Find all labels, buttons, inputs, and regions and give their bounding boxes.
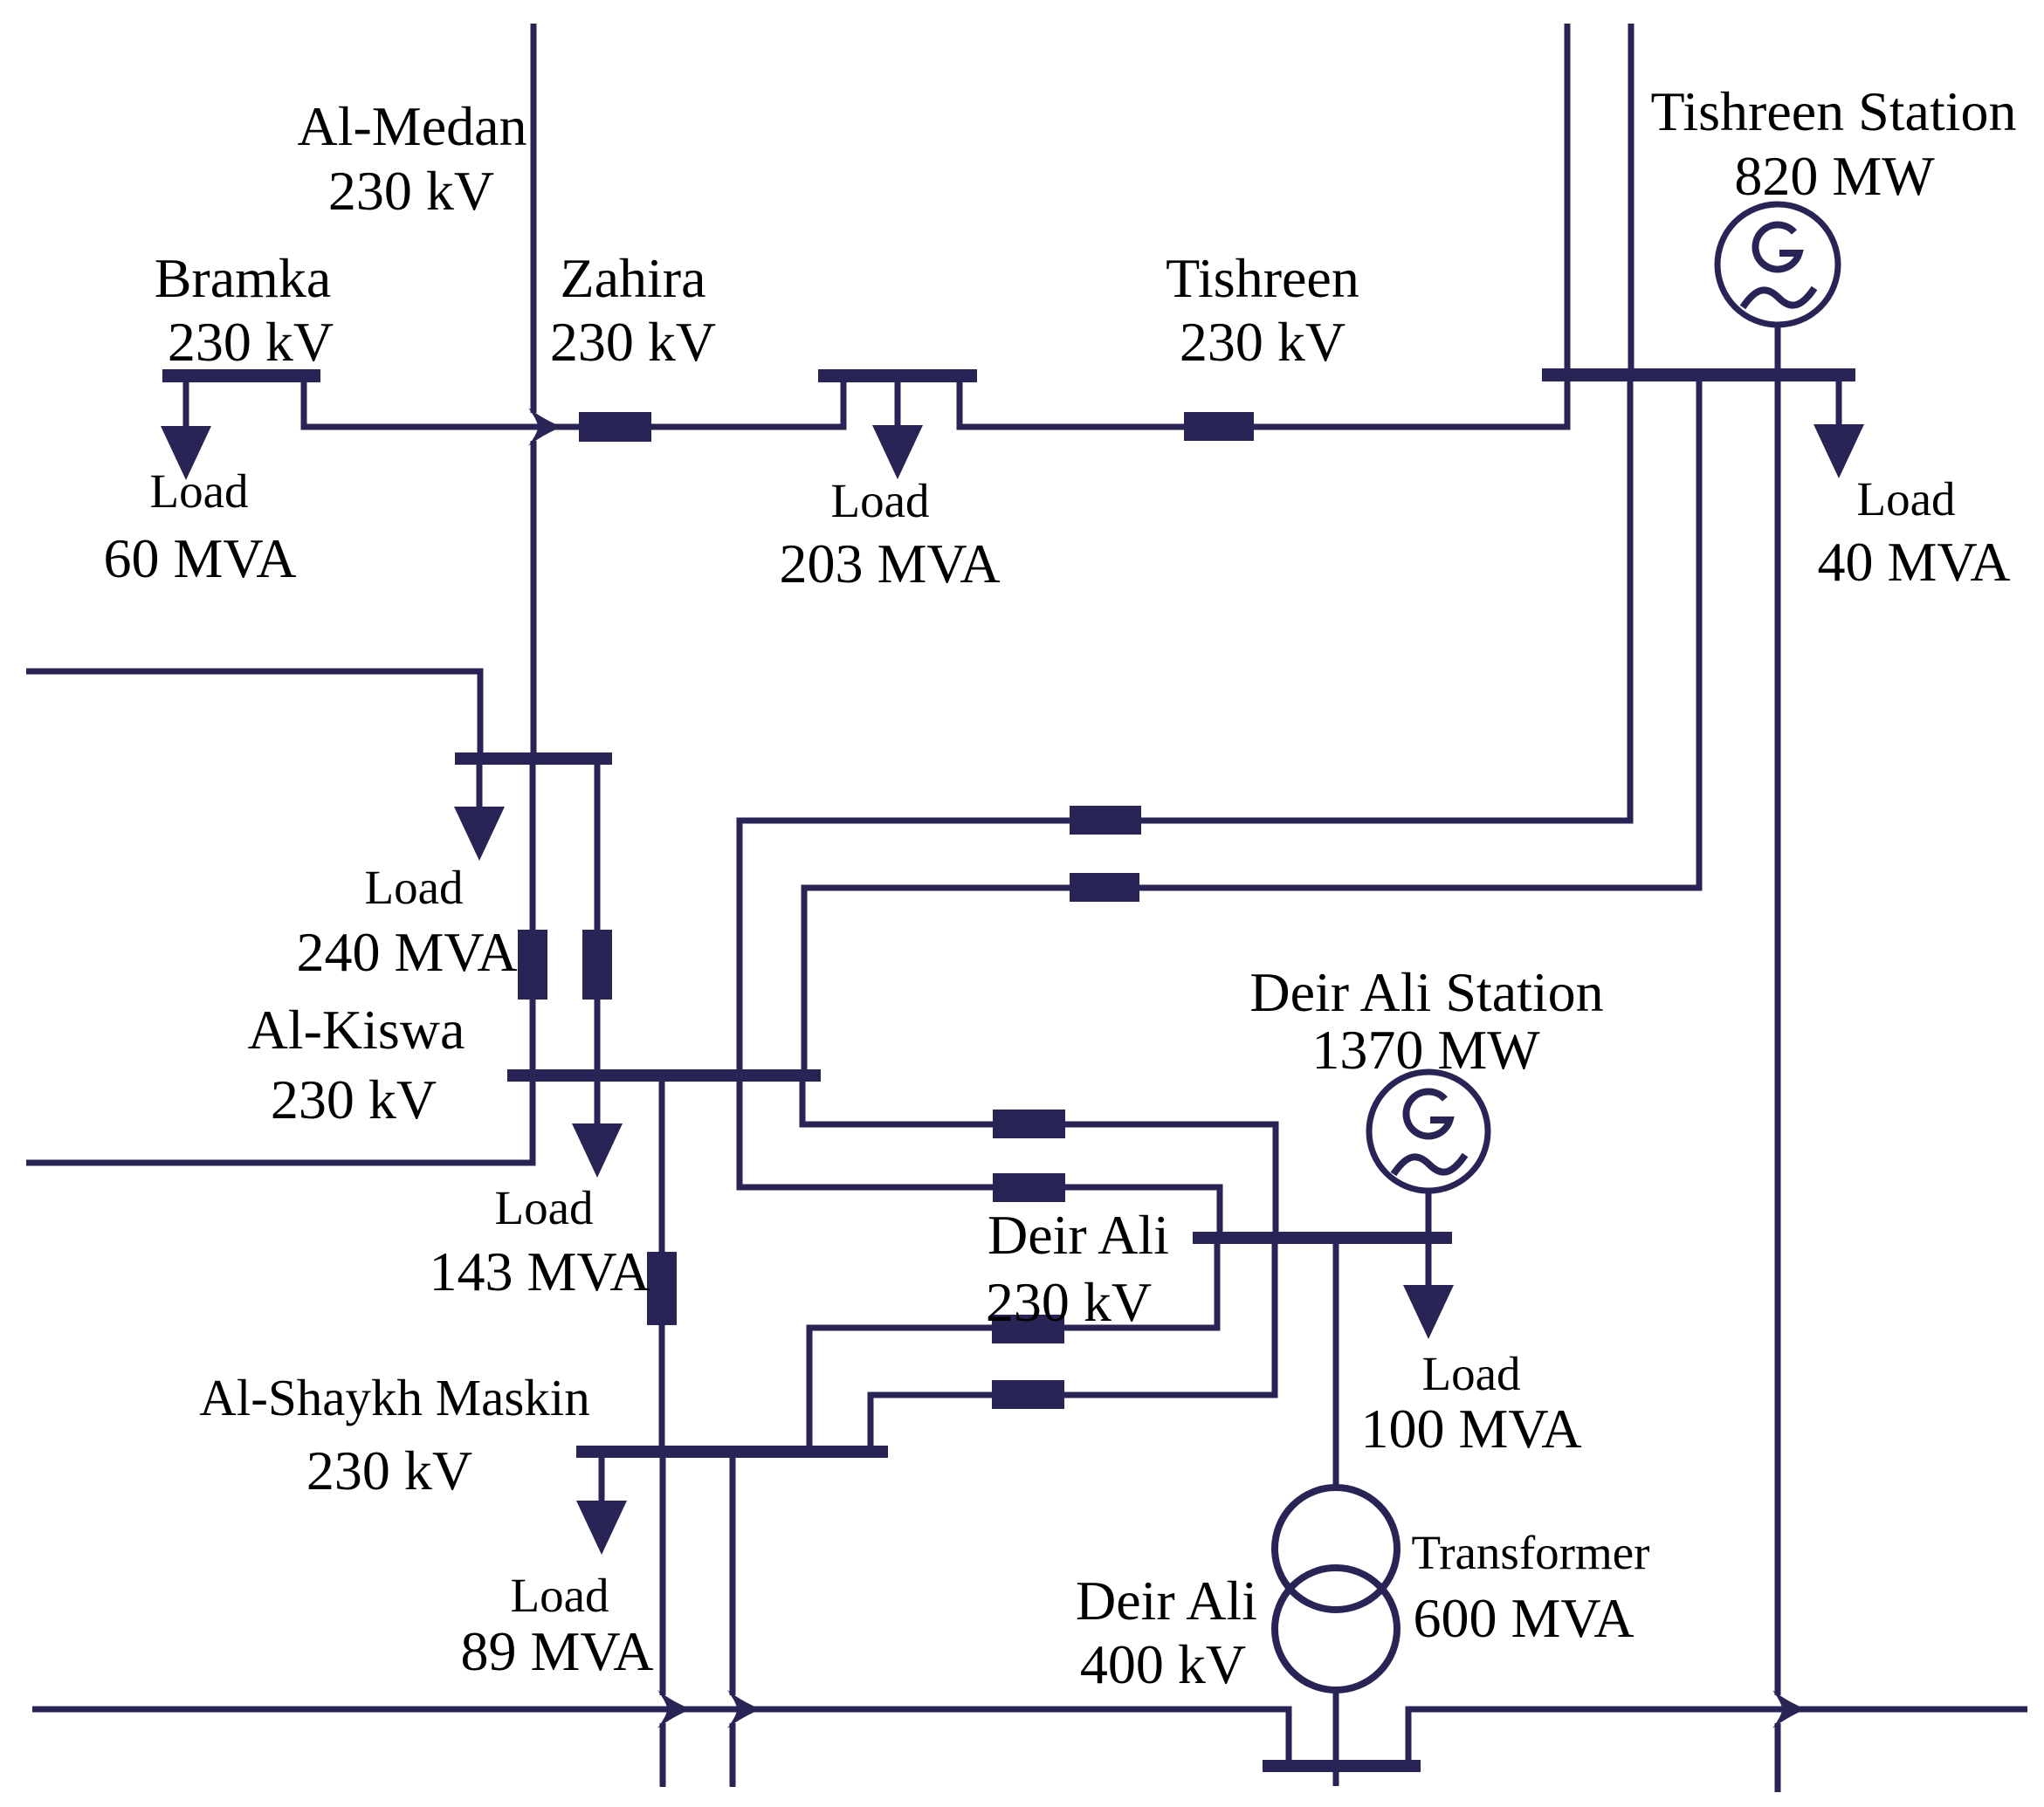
wire impedance branch 1: [530, 765, 536, 1069]
load arrow 60 MVA: [161, 426, 211, 480]
svg-text:820 MW: 820 MW: [1734, 145, 1935, 207]
node hop arrow at Zahira junction: [528, 408, 561, 446]
svg-text:Al-Medan: Al-Medan: [297, 95, 526, 157]
node hop arrow vertical a at 400kV line: [657, 1690, 691, 1728]
wire Tishreen top feeder 2: [1628, 24, 1635, 369]
wire line Tishreen to Al-Kiswa 2: [804, 381, 1699, 1069]
svg-text:Load: Load: [494, 1181, 593, 1234]
wire transformer upper connection: [1333, 1244, 1339, 1488]
bus Tishreen 230 kV: [1542, 368, 1855, 381]
svg-text:230 kV: 230 kV: [328, 160, 494, 222]
svg-text:Bramka: Bramka: [155, 247, 332, 309]
wire Zahira to Tishreen segment: [960, 381, 1567, 427]
generator G1 sine mark: [1743, 288, 1814, 307]
bus Bramka 230 kV: [162, 369, 320, 382]
breaker Tishreen-AlKiswa line 1: [1070, 806, 1141, 835]
wire impedance branch 2: [595, 765, 601, 1069]
wire Al-Shaykh load stub: [599, 1458, 605, 1501]
wire Tishreen load stub: [1836, 381, 1842, 425]
bus Al-Kiswa 230 kV: [507, 1069, 821, 1082]
wire Deir Ali load stub: [1426, 1244, 1432, 1286]
breaker Tishreen-AlKiswa line 2: [1070, 873, 1139, 902]
svg-text:60 MVA: 60 MVA: [103, 527, 296, 589]
wire left incomer 2: [26, 1082, 533, 1163]
breaker DeirAli-AlShaykh line 2: [992, 1380, 1064, 1409]
generator G2 letter G: [1406, 1091, 1449, 1136]
load arrow 203 MVA: [872, 425, 923, 479]
svg-text:Zahira: Zahira: [561, 247, 706, 309]
svg-text:203 MVA: 203 MVA: [779, 532, 1000, 594]
svg-text:Transformer: Transformer: [1412, 1526, 1650, 1579]
wire Al-Shaykh outgoing vertical a lower: [660, 1723, 666, 1787]
bus Al-Shaykh Maskin 230 kV: [576, 1446, 888, 1458]
wire transformer lower connection: [1333, 1690, 1339, 1786]
svg-text:Deir Ali: Deir Ali: [1076, 1570, 1257, 1632]
wire Al-Kiswa load stub: [595, 1082, 601, 1124]
breaker Bramka-Zahira line: [579, 412, 651, 442]
wire line Al-Kiswa to Deir Ali 4: [740, 1082, 1220, 1232]
breaker DeirAli-AlShaykh line 1: [992, 1315, 1064, 1343]
bus Deir Ali 400 kV: [1263, 1760, 1421, 1772]
load arrow 143 MVA: [572, 1123, 623, 1178]
wire generator G1 stub: [1775, 325, 1781, 369]
transformer 600 MVA circle upper: [1275, 1488, 1397, 1610]
wire line Deir Ali to Al-Shaykh 1: [809, 1244, 1217, 1446]
svg-text:600 MVA: 600 MVA: [1413, 1587, 1634, 1649]
generator G1 letter G: [1755, 224, 1799, 269]
wire Al-Medan feeder vertical upper: [531, 24, 537, 413]
svg-text:400 kV: 400 kV: [1080, 1633, 1246, 1695]
wire Zahira load stub: [895, 382, 901, 426]
bus Zahira 230 kV: [818, 369, 977, 382]
svg-text:230 kV: 230 kV: [986, 1271, 1152, 1333]
load arrow 89 MVA: [576, 1501, 627, 1555]
svg-text:100 MVA: 100 MVA: [1360, 1398, 1581, 1460]
wire Al-Shaykh outgoing vertical b upper: [730, 1458, 736, 1695]
wire Al-Shaykh outgoing vertical a upper: [660, 1458, 666, 1695]
generator G2 Deir Ali Station circle: [1369, 1072, 1488, 1191]
breaker AlKiswa-DeirAli line 3: [993, 1110, 1065, 1138]
node hop arrow vertical b at 400kV line: [727, 1690, 760, 1728]
svg-text:Load: Load: [1856, 472, 1955, 526]
generator G2 sine mark: [1394, 1155, 1465, 1174]
wire line Deir Ali to Al-Shaykh 2: [871, 1244, 1275, 1446]
bus Deir Ali 230 kV: [1193, 1232, 1452, 1244]
transformer 600 MVA circle lower: [1275, 1568, 1397, 1690]
svg-text:1370 MW: 1370 MW: [1311, 1019, 1540, 1081]
svg-text:Load: Load: [1421, 1347, 1520, 1400]
wire Al-Shaykh outgoing vertical b lower: [730, 1723, 736, 1787]
wire 240 load stub: [477, 765, 483, 807]
node hop arrow right vertical at 400kV line: [1772, 1690, 1806, 1728]
load arrow 240 MVA: [454, 807, 505, 861]
svg-text:Tishreen Station: Tishreen Station: [1651, 80, 2017, 142]
svg-text:40 MVA: 40 MVA: [1817, 531, 2010, 593]
wire generator G2 stub: [1426, 1191, 1432, 1232]
svg-text:143 MVA: 143 MVA: [429, 1240, 650, 1302]
wire right long vertical upper: [1775, 381, 1781, 1695]
svg-text:Tishreen: Tishreen: [1166, 247, 1359, 309]
svg-text:230 kV: 230 kV: [271, 1068, 437, 1130]
wire Bramka load stub: [183, 382, 189, 428]
svg-text:Al-Kiswa: Al-Kiswa: [248, 999, 465, 1061]
breaker AlKiswa-DeirAli line 4: [993, 1173, 1065, 1202]
wire Bramka to Zahira segment: [304, 382, 843, 427]
impedance element branch 1: [518, 930, 547, 1000]
svg-text:230 kV: 230 kV: [168, 311, 334, 373]
svg-text:Load: Load: [149, 464, 248, 518]
load arrow 100 MVA: [1403, 1285, 1454, 1339]
svg-text:89 MVA: 89 MVA: [460, 1620, 653, 1682]
svg-text:Load: Load: [364, 861, 463, 914]
wire 400 kV line left: [32, 1709, 1289, 1760]
impedance element branch 2: [582, 930, 612, 1000]
wire Al-Medan feeder vertical lower: [531, 441, 537, 752]
generator G1 Tishreen Station circle: [1717, 204, 1838, 325]
wire line Al-Kiswa to Deir Ali 3: [802, 1082, 1276, 1232]
svg-text:230 kV: 230 kV: [1180, 311, 1345, 373]
wire line Tishreen to Al-Kiswa 1: [740, 381, 1630, 1069]
breaker Zahira-Tishreen line: [1184, 412, 1254, 441]
load arrow 40 MVA: [1813, 424, 1864, 478]
svg-text:Al-Shaykh Maskin: Al-Shaykh Maskin: [199, 1369, 589, 1426]
svg-text:230 kV: 230 kV: [306, 1439, 472, 1501]
svg-text:Deir Ali Station: Deir Ali Station: [1249, 961, 1603, 1023]
wire 400 kV line right: [1408, 1709, 2027, 1760]
wire left incomer 1: [26, 671, 480, 752]
svg-text:Load: Load: [510, 1569, 609, 1622]
bus node 240 MVA: [455, 752, 612, 765]
svg-text:240 MVA: 240 MVA: [296, 921, 517, 983]
wire Tishreen top feeder 1: [1565, 24, 1571, 369]
svg-text:Deir Ali: Deir Ali: [988, 1204, 1169, 1266]
wire Al-Kiswa to Al-Shaykh line: [659, 1082, 665, 1446]
wire right long vertical lower: [1775, 1723, 1781, 1792]
svg-text:Load: Load: [830, 474, 929, 527]
svg-text:230 kV: 230 kV: [550, 311, 716, 373]
breaker Al-Kiswa-AlShaykh line: [647, 1252, 677, 1325]
